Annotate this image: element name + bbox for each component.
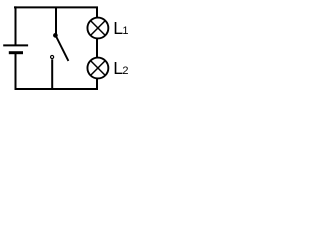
wire between lamps	[96, 39, 98, 58]
svg-text:1: 1	[122, 25, 128, 37]
battery B1 short plate (-)	[9, 51, 23, 54]
wire switch bottom	[51, 59, 53, 89]
wire right lower	[96, 79, 98, 91]
wire right upper	[96, 7, 98, 18]
switch S1 contact (open circle)	[51, 55, 54, 58]
battery B1 long plate (+)	[3, 44, 28, 46]
wire top	[14, 6, 98, 8]
wire left lower	[15, 53, 17, 90]
switch S1 pivot dot	[53, 33, 58, 38]
svg-text:2: 2	[122, 65, 128, 77]
wire left upper	[15, 6, 17, 45]
lamp L1 circle	[87, 18, 108, 39]
switch S1 blade (open)	[56, 36, 68, 61]
wire switch top	[55, 7, 57, 35]
lamp L2 circle	[87, 58, 108, 79]
wire bottom	[15, 88, 99, 90]
lamp L2 cross	[91, 61, 106, 76]
lamp L1 cross	[91, 21, 106, 36]
